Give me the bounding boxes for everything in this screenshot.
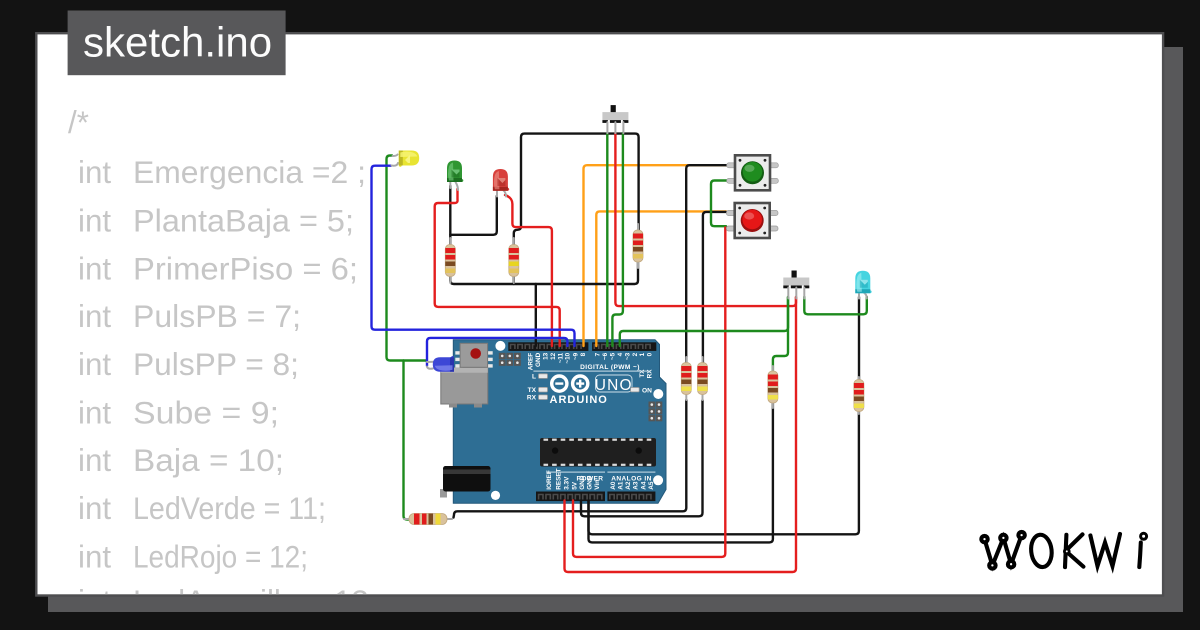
wire black R6 to GND2 xyxy=(589,400,773,542)
wire orange pin7 to red button xyxy=(596,211,726,346)
svg-text:GND: GND xyxy=(587,475,594,490)
svg-text:RX: RX xyxy=(647,369,654,379)
wire black red button to R5 xyxy=(703,212,726,370)
LED yellow (horizontal) xyxy=(392,151,420,167)
svg-text:2: 2 xyxy=(632,352,639,356)
svg-text:~9: ~9 xyxy=(572,352,579,360)
slide switch SW3 (top) xyxy=(602,105,628,133)
pushbutton red SW2 xyxy=(726,203,778,238)
wire blue pin10 to blue LED xyxy=(427,338,567,366)
resistor R4 xyxy=(681,357,691,400)
POWER / ANALOG labels xyxy=(547,472,606,473)
resistor R5 xyxy=(698,357,708,400)
Arduino UNO board U1 xyxy=(440,340,666,504)
wire red 5V to red button xyxy=(573,228,725,557)
svg-text:/*: /* xyxy=(68,105,89,140)
LED red xyxy=(493,169,509,191)
svg-text:5V: 5V xyxy=(572,481,579,490)
wire green yellow LED net xyxy=(387,156,427,361)
ICSP header 2 xyxy=(649,402,656,408)
wire black cathode junction xyxy=(450,196,497,235)
reset button xyxy=(455,351,463,354)
analog header xyxy=(607,492,655,502)
svg-text:IOREF: IOREF xyxy=(546,470,553,490)
LED blue (horizontal) xyxy=(427,356,454,372)
WOKWI logo xyxy=(981,532,1146,569)
svg-text:7: 7 xyxy=(594,352,601,356)
ATmega chip xyxy=(540,438,656,467)
wire green junction to R8 xyxy=(404,361,410,520)
wire green pin4 to switch2 xyxy=(620,297,788,346)
svg-text:13: 13 xyxy=(542,352,549,360)
svg-text:A0: A0 xyxy=(610,481,617,490)
svg-text:~11: ~11 xyxy=(557,352,564,363)
ICSP header 1 xyxy=(499,353,506,359)
svg-text:Vin: Vin xyxy=(594,480,601,490)
svg-text:A1: A1 xyxy=(618,481,625,490)
svg-text:RESET: RESET xyxy=(556,468,563,489)
wire green switch2 to cyan LED xyxy=(804,297,867,314)
svg-text:UNO: UNO xyxy=(595,377,633,394)
wire black R2-top to R3-top xyxy=(514,134,639,246)
svg-text:~3: ~3 xyxy=(625,352,632,360)
svg-text:A4: A4 xyxy=(640,481,647,490)
wire blue yellow LED to pin9 xyxy=(372,166,575,346)
svg-text:intSube = 9;: intSube = 9; xyxy=(78,395,279,430)
svg-text:0: 0 xyxy=(647,352,654,356)
wire black green button to R4 xyxy=(686,165,730,370)
wire green switch2 to R6 xyxy=(773,297,788,371)
wire black GND-rail R1 R2 R3 xyxy=(450,258,638,284)
resistor R2 xyxy=(509,238,519,283)
svg-text:A3: A3 xyxy=(633,481,640,490)
USB connector xyxy=(441,368,488,404)
wire orange pin8 to green button xyxy=(584,165,731,346)
wire black cyan LED to R7 xyxy=(858,297,860,381)
sketch.ino tab xyxy=(68,11,286,76)
svg-text:~5: ~5 xyxy=(609,352,616,360)
svg-text:DIGITAL (PWM ~): DIGITAL (PWM ~) xyxy=(580,364,640,371)
UNO label xyxy=(596,375,633,392)
wire green pin6 to switch1 xyxy=(606,133,608,346)
svg-text:TX: TX xyxy=(528,387,537,394)
wire black R2 bottom stub xyxy=(513,262,515,284)
Arduino logo xyxy=(552,376,567,391)
LED cyan xyxy=(855,271,871,293)
digital pin header left xyxy=(508,342,588,351)
svg-text:intBaja = 10;: intBaja = 10; xyxy=(78,443,284,478)
svg-text:A5: A5 xyxy=(648,481,655,490)
wire black green LED cathode to R1 xyxy=(449,186,451,246)
svg-text:GND: GND xyxy=(579,475,586,490)
svg-text:8: 8 xyxy=(580,352,587,356)
LED green xyxy=(447,161,463,183)
svg-text:TX: TX xyxy=(639,369,646,378)
svg-text:3.3V: 3.3V xyxy=(564,476,571,490)
wire red 3.3V to switch2 xyxy=(565,297,797,572)
wire black GND rail to GND pin xyxy=(535,284,537,346)
svg-text:~10: ~10 xyxy=(565,352,572,363)
wire black R4 to R8 xyxy=(454,400,687,518)
mounting holes xyxy=(495,341,505,351)
wire green pin5 to switch1 xyxy=(612,133,623,346)
wire red red LED to pin12 xyxy=(505,195,552,346)
wire green btn-green to btn-red xyxy=(711,181,730,227)
resistor R3 xyxy=(633,224,643,268)
svg-text:L: L xyxy=(532,374,536,381)
svg-text:AREF: AREF xyxy=(527,353,534,370)
ON LED xyxy=(631,388,640,392)
resistor R1 xyxy=(445,238,455,283)
power header xyxy=(536,492,605,502)
svg-text:ON: ON xyxy=(642,388,652,395)
digital pin header right xyxy=(592,342,656,351)
pushbutton green SW1 xyxy=(727,155,779,190)
svg-text:~6: ~6 xyxy=(602,352,609,360)
svg-text:ANALOG IN: ANALOG IN xyxy=(611,476,652,483)
svg-text:4: 4 xyxy=(617,352,624,356)
power jack xyxy=(440,489,447,498)
wire red switch1 to switch2 xyxy=(615,133,796,306)
resistor R8 xyxy=(404,514,452,525)
resistor R7 xyxy=(854,377,864,414)
svg-text:GND: GND xyxy=(535,352,542,367)
svg-text:A2: A2 xyxy=(625,481,632,490)
slide switch SW4 xyxy=(783,271,809,299)
svg-text:ARDUINO: ARDUINO xyxy=(550,394,608,406)
wire black R7 to GND2 xyxy=(589,409,859,534)
svg-text:1: 1 xyxy=(639,352,646,356)
wire black R5 to GND1 xyxy=(581,400,703,516)
resistor R6 xyxy=(768,366,778,408)
svg-text:RX: RX xyxy=(527,395,537,402)
svg-text:sketch.ino: sketch.ino xyxy=(83,19,272,66)
svg-text:12: 12 xyxy=(550,352,557,360)
wire red green LED to pin11 xyxy=(435,189,560,346)
